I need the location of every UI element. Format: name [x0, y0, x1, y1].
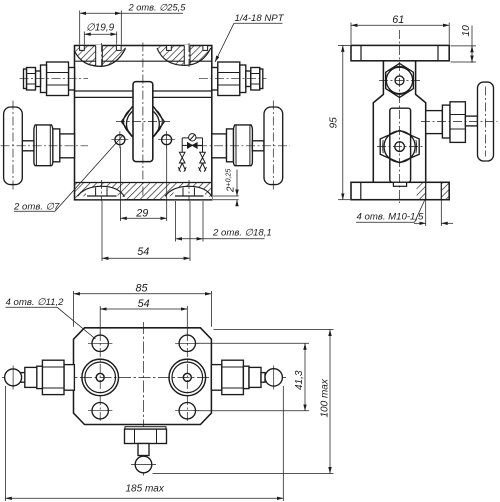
plan view: four mounting hole circles d11,2 — [92, 335, 196, 419]
plan view: left process port circles — [82, 359, 119, 396]
svg-text:85: 85 — [136, 282, 149, 294]
side view: center handle bar (edge-on) — [390, 108, 411, 186]
side view: equalizer valve centerlines — [421, 87, 498, 157]
plan view: right side valve fitting — [211, 360, 282, 394]
plan view: side ball cross ticks — [13, 366, 274, 390]
svg-text:29: 29 — [135, 207, 148, 219]
side view: top flange — [351, 45, 449, 60]
side view: bottom flange with bolt hole section — [351, 182, 449, 199]
svg-text:∅19,9: ∅19,9 — [86, 23, 115, 34]
side view: top hex centerline — [379, 79, 420, 81]
side view: body profile — [373, 61, 425, 183]
side view: mid hex centerline — [377, 146, 423, 148]
dimension 100 max — [153, 330, 334, 474]
svg-text:2 отв. ∅18,1: 2 отв. ∅18,1 — [212, 228, 272, 239]
svg-text:100 max: 100 max — [319, 378, 330, 417]
dimension 54 (front) — [102, 201, 190, 261]
front view: center equalizer valve hex and bonnet circle — [122, 107, 165, 141]
plan view: left side valve fitting — [5, 360, 75, 394]
front view: center valve centerlines — [116, 43, 170, 199]
front view: lower right valve — [212, 107, 283, 185]
svg-text:2 отв. ∅7: 2 отв. ∅7 — [13, 202, 60, 213]
front view: lower left valve centerlines — [1, 101, 89, 192]
side view: equalizer valve (pointing right) — [426, 82, 494, 161]
plan view: port/bolt centerlines — [88, 332, 200, 422]
dimension 10 (flange thickness) — [451, 26, 477, 63]
front view: upper right fitting centerline — [199, 78, 267, 80]
callout 4 holes d11,2 with leader — [6, 307, 96, 339]
front view: upper left fitting centerline — [20, 78, 89, 80]
svg-text:61: 61 — [392, 14, 404, 26]
front view: top flange section band — [75, 45, 212, 66]
plan view: main horizontal centerline — [2, 376, 286, 378]
dimension 85 (plan top) — [74, 291, 212, 327]
svg-text:4 отв. М10-1,5: 4 отв. М10-1,5 — [357, 212, 425, 223]
dimension 2+0,25 (bottom step) — [213, 170, 239, 207]
front view: manifold body outline — [75, 46, 212, 200]
front view: port centerlines — [102, 43, 190, 201]
svg-text:4 отв. ∅11,2: 4 отв. ∅11,2 — [6, 297, 65, 308]
plan view: main vertical centerline — [143, 322, 145, 477]
dimension 185 max — [5, 386, 283, 501]
front view: center valve handle (edge-on) — [133, 82, 153, 162]
plan view: right process port circles — [169, 359, 206, 396]
side view: side valve hex (end-on) — [380, 130, 419, 162]
svg-text:1/4-18 NPT: 1/4-18 NPT — [235, 13, 285, 24]
dimension d19,9 — [84, 32, 116, 45]
svg-text:10: 10 — [461, 25, 472, 37]
dimension 54 (plan) — [100, 306, 187, 334]
side view: top NPT port hex (end-on) — [386, 63, 414, 97]
front view: vent hole circles (2 holes d7) — [111, 131, 175, 148]
side view: vertical centerline — [399, 30, 401, 203]
front view: bottom flange section band — [75, 183, 213, 200]
front view: upper right NPT fitting — [212, 62, 263, 96]
front view: lower left valve — [4, 107, 75, 185]
svg-text:185 max: 185 max — [126, 484, 165, 495]
dimension 61 (side view top) — [351, 23, 449, 45]
svg-text:54: 54 — [137, 246, 149, 258]
plan view: body octagon outline — [74, 328, 212, 425]
dimension 41,3 — [197, 343, 310, 410]
svg-text:41,3: 41,3 — [294, 370, 305, 390]
svg-text:54: 54 — [138, 298, 150, 310]
callout 4 holes M10-1,5 — [356, 201, 425, 223]
front view: engraved flow schematic symbol — [178, 134, 206, 172]
svg-text:2 отв. ∅25,5: 2 отв. ∅25,5 — [128, 3, 187, 13]
front view: upper left NPT fitting — [24, 62, 75, 96]
dimension 2 holes d18,1 — [176, 201, 265, 242]
dimension 2 holes d25,5 (top) — [80, 11, 183, 45]
svg-text:95: 95 — [328, 117, 339, 129]
front view: lower right valve centerlines — [198, 101, 290, 192]
plan view: bottom drain valve — [125, 427, 167, 473]
callout 2 holes d7 with leader — [14, 135, 123, 211]
plan view: drain ball cross ticks — [131, 464, 156, 466]
dimension 95 (side view height) — [338, 45, 350, 199]
dimension M10 hole width — [414, 201, 453, 227]
front view: upper horizontal body lines — [75, 91, 212, 97]
callout 1/4-18 NPT with leader — [215, 23, 283, 62]
dimension 29 — [120, 147, 166, 222]
